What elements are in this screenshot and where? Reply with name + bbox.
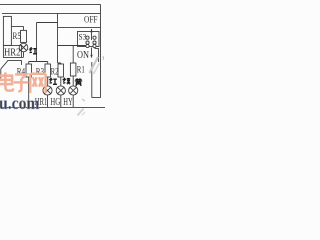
hanzi red (HR2)	[30, 47, 38, 54]
wire R1 to lamp HY	[72, 76, 74, 86]
lamp HY	[69, 86, 78, 95]
svg-text:HR2: HR2	[4, 47, 21, 59]
left component box	[3, 16, 11, 45]
switch top contacts	[86, 36, 89, 39]
wire R3 to lamp HR1	[47, 77, 49, 86]
watermark hanzi dian	[0, 72, 13, 90]
wire lower-right contact to right box	[95, 48, 99, 62]
svg-text:R2: R2	[51, 67, 59, 77]
resistor R5	[21, 30, 27, 42]
switch actuate arrow up	[91, 29, 93, 40]
svg-text:R5: R5	[13, 31, 22, 41]
wire lamp HR2 bottom	[23, 52, 25, 57]
watermark u.com	[0, 94, 40, 114]
wire from bus2 to R5	[11, 26, 23, 30]
watermark hanzi wang	[30, 74, 45, 93]
wire top bus 1	[0, 3, 101, 5]
wire lamp HY bottom	[72, 95, 74, 107]
watermark gray smudge right	[90, 57, 99, 73]
wire ON arrow down	[91, 48, 93, 58]
wire top bus 2	[2, 12, 101, 14]
wire right vertical rail	[100, 4, 102, 97]
lamp HR1	[43, 86, 52, 95]
hanzi green (HG)	[63, 78, 70, 84]
svg-text:R1: R1	[77, 65, 85, 75]
lamp HG	[56, 86, 65, 95]
wire R4 to bottom bus	[28, 77, 30, 107]
label box HR2	[3, 45, 23, 57]
left cropped component (diagonal)	[1, 60, 22, 78]
svg-text:OFF: OFF	[84, 15, 98, 25]
wire R2 to lamp HG	[60, 77, 62, 86]
wire y45.5 to switch lower-left contact	[58, 45, 86, 47]
arrowhead up (switch)	[90, 29, 92, 32]
wire branch y22	[37, 22, 58, 24]
wire lamp HG bottom	[60, 95, 62, 107]
svg-text:HY: HY	[63, 97, 72, 108]
resistor R1	[70, 63, 76, 76]
wire bottom bus	[0, 106, 105, 108]
right cropped box	[92, 62, 101, 98]
resistor R2	[58, 64, 64, 77]
wire center vertical x57.5	[57, 13, 59, 63]
svg-text:ON: ON	[77, 50, 89, 61]
arrowhead down (ON)	[90, 55, 92, 58]
resistor R4	[26, 64, 32, 77]
resistor R3	[45, 64, 51, 77]
svg-text:R3: R3	[36, 67, 45, 77]
svg-text:u.com: u.com	[0, 94, 40, 114]
hanzi red (HR1)	[50, 78, 58, 85]
wire T to R1	[72, 46, 74, 64]
wire split to R4 R3	[29, 62, 48, 65]
wire R5 to lamp HR2	[23, 42, 25, 43]
watermark hanzi zi	[14, 75, 29, 92]
lamp HR2	[19, 43, 28, 52]
wire vertical x36	[36, 23, 38, 62]
svg-text:HG: HG	[50, 97, 60, 108]
hanzi yellow (HY)	[75, 78, 82, 86]
svg-text:S3: S3	[79, 32, 87, 42]
switch S3 box	[78, 32, 100, 47]
wire branch to R2	[58, 63, 61, 64]
switch bottom contacts	[86, 41, 89, 44]
wire lamp HR1 bottom	[47, 95, 49, 107]
wire S3 feed bus y27.5	[58, 26, 101, 28]
